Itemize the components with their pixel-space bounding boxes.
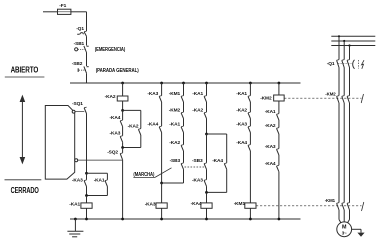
limit switch SQ1 — [84, 108, 86, 114]
wire P1 b — [338, 68, 340, 96]
coil KA4 — [201, 203, 212, 208]
wire P1 c — [338, 103, 340, 203]
contact KA1 C6 — [277, 114, 279, 120]
svg-text:-KA2: -KA2 — [128, 123, 139, 129]
junction bus2 x206.5 — [205, 218, 208, 221]
junction bus1 x122.6 — [121, 82, 124, 85]
svg-text:-KM1: -KM1 — [325, 198, 336, 203]
wire motor feed 1 — [338, 210, 340, 220]
mech link KM2 — [284, 97, 361, 99]
contactor KM2 poles — [337, 96, 339, 103]
svg-text:-KM2: -KM2 — [260, 96, 272, 102]
link SB3-SB3 — [185, 166, 206, 168]
junction bus2 x122.6 — [121, 218, 124, 221]
wire top feed — [43, 11, 58, 13]
wire P3 a — [349, 46, 351, 60]
contact KA3 main — [86, 173, 88, 180]
earth wire — [352, 228, 361, 230]
contact SB3 C3 — [181, 164, 183, 170]
contactor KM1 poles — [337, 203, 339, 210]
svg-text:-KA1: -KA1 — [265, 109, 276, 115]
node C4 branch top — [205, 133, 208, 136]
svg-text:-KM2: -KM2 — [325, 91, 336, 96]
contact KA4 C5 — [248, 145, 250, 151]
svg-text:3~: 3~ — [342, 231, 347, 236]
wire main mid — [86, 114, 88, 174]
underline ABIERTO — [5, 76, 45, 78]
wire P2 b — [343, 68, 345, 96]
svg-text:-KA3: -KA3 — [72, 178, 83, 184]
contact KA2 C5 — [248, 113, 250, 119]
wire C5 — [249, 102, 251, 112]
contact KA1 C4 — [204, 96, 206, 102]
svg-text:(PARADA GENERAL): (PARADA GENERAL) — [96, 68, 139, 74]
contact KA2 C6 — [277, 128, 279, 134]
pushbutton SB1 — [84, 46, 87, 53]
svg-text:ABIERTO: ABIERTO — [11, 66, 39, 75]
overline CERRADO — [5, 179, 42, 181]
svg-text:-Q1: -Q1 — [76, 26, 84, 32]
leader MARCHA — [133, 176, 155, 178]
svg-text:-SB2: -SB2 — [72, 61, 83, 67]
svg-text:-KA3: -KA3 — [110, 131, 121, 137]
contact KA2 C4 — [204, 113, 206, 119]
svg-text:-KA3: -KA3 — [236, 121, 247, 127]
svg-text:-KA2: -KA2 — [236, 107, 247, 113]
wire C6 — [278, 134, 280, 149]
branch KA4p wires — [207, 133, 227, 135]
link SQ2 — [78, 159, 122, 161]
wire C1 b — [122, 110, 124, 120]
node C1 branch bottom — [121, 146, 124, 149]
node C1 branch top — [121, 109, 124, 112]
svg-text:-KA3: -KA3 — [192, 178, 203, 184]
coil KM2 — [274, 95, 285, 101]
phase line L2 — [331, 40, 375, 42]
contact KA2 C3 — [181, 145, 183, 151]
wire C1 a — [122, 101, 124, 110]
wire C5 — [249, 83, 251, 96]
svg-text:-KA1: -KA1 — [236, 91, 247, 97]
wire to coil KA1 — [86, 196, 88, 203]
contact KM2 aux — [361, 94, 363, 103]
svg-text:-KA1: -KA1 — [192, 91, 203, 97]
wire coil KA4 to bus — [206, 208, 208, 219]
contact KA3 C2 — [159, 96, 161, 102]
wire C4 — [206, 102, 208, 112]
wire P2 a — [343, 41, 345, 60]
phase line L1 — [331, 35, 375, 37]
contact KA3 C6 — [277, 149, 279, 155]
wire C4 — [206, 83, 208, 96]
breaker Q1 poles — [337, 60, 339, 67]
svg-text:-KA2: -KA2 — [192, 107, 203, 113]
svg-text:-KA3: -KA3 — [265, 144, 276, 150]
wire C6 top — [278, 83, 280, 95]
svg-text:-KA4: -KA4 — [110, 115, 121, 121]
wire C2 to coil — [161, 183, 163, 203]
wire P3 c — [349, 103, 351, 203]
junction bus1 x206.5 — [205, 82, 208, 85]
breaker Q1 linkage — [338, 63, 352, 65]
junction bus2 x161.6 — [160, 218, 163, 221]
junction bus1 x250.4 — [249, 82, 252, 85]
wire coil KM1 to bus — [249, 208, 251, 219]
contact KA1 C3 — [181, 127, 183, 133]
breaker contact Q1 — [84, 32, 86, 36]
bus bottom — [70, 218, 301, 220]
wire C6 — [278, 120, 280, 128]
svg-text:-KA1: -KA1 — [69, 202, 80, 208]
svg-text:-KA3: -KA3 — [147, 91, 158, 97]
wire C5 — [249, 133, 251, 145]
wire C2 — [161, 102, 163, 126]
wire C6 — [278, 101, 280, 114]
contact KA1 C5 — [248, 96, 250, 102]
contact KA4 C2 — [159, 127, 161, 133]
junction L2 — [343, 40, 345, 42]
junction L1 — [338, 35, 340, 37]
svg-text:M: M — [342, 224, 347, 230]
svg-text:-KA4: -KA4 — [265, 161, 276, 167]
node ML-KA3 top — [85, 172, 88, 175]
wire C3 — [183, 119, 185, 127]
wire C3 — [183, 133, 185, 145]
svg-text:-KA4: -KA4 — [212, 158, 223, 164]
svg-text:-SB3: -SB3 — [170, 158, 181, 164]
junction bus2 x86.5 — [85, 218, 88, 221]
wire C1 top — [122, 83, 124, 96]
limit switch SQ2 contact — [120, 154, 122, 160]
contact KM1 C3 — [181, 96, 183, 102]
wire C1 c — [122, 148, 124, 153]
contact KA4 C6 — [277, 166, 279, 172]
junction bus1 x161.6 — [160, 82, 163, 85]
wire main drop — [86, 12, 88, 31]
coil KA1 — [81, 203, 92, 208]
svg-text:-KA2: -KA2 — [265, 123, 276, 129]
wire C5 — [249, 119, 251, 127]
wire C6 — [278, 155, 280, 165]
junction bus2 x278.9 — [278, 218, 281, 221]
ground symbol — [67, 230, 83, 232]
roller SQ2 — [75, 159, 78, 162]
svg-text:-Q1: -Q1 — [327, 61, 335, 67]
junction bus2 x75.4 — [74, 218, 77, 221]
contact KA3 C5 — [248, 127, 250, 133]
svg-text:-KA4: -KA4 — [191, 201, 202, 207]
branch KA1 wires — [87, 172, 108, 174]
wire C4 b — [206, 134, 208, 163]
ground stub — [74, 219, 76, 231]
svg-text:-KA4: -KA4 — [236, 140, 247, 146]
svg-text:-KA2: -KA2 — [105, 94, 116, 100]
contact KM1 aux — [362, 202, 364, 211]
wire C2 — [161, 133, 163, 184]
node C2 join — [160, 182, 163, 185]
breaker Q1 release — [353, 60, 355, 69]
contact KM2 C3 — [181, 113, 183, 119]
double arrow travel — [21, 99, 23, 160]
junction bus1 x278.9 — [278, 82, 281, 85]
svg-text:-KA1: -KA1 — [169, 121, 180, 127]
motor M1 — [337, 222, 352, 237]
node ML-KA3 bottom — [85, 194, 88, 197]
wire C4 — [206, 119, 208, 135]
earth arrow — [357, 233, 364, 237]
bus L+ top — [70, 82, 301, 84]
junction L3 — [348, 44, 350, 46]
coil KA3 — [156, 203, 167, 208]
coil KM1 — [245, 203, 256, 208]
contact KA3 C4 — [204, 180, 206, 186]
wire coil KA3 to bus — [161, 208, 163, 219]
junction bus1 x183.5 — [182, 82, 185, 85]
wire C3 — [183, 102, 185, 112]
svg-text:-KA1: -KA1 — [94, 178, 105, 184]
svg-text:-KM1: -KM1 — [234, 201, 246, 207]
branch KA2 hold wires — [123, 109, 141, 111]
svg-text:-KA4: -KA4 — [147, 121, 158, 127]
coil KA2 — [117, 96, 128, 101]
wire C2 — [161, 83, 163, 96]
wire coil KA1 to bus — [86, 208, 88, 219]
contact KA3 C1 — [120, 136, 122, 142]
svg-text:-SB3: -SB3 — [192, 158, 203, 164]
fuse F1 — [58, 9, 71, 14]
wire C3 join — [162, 182, 184, 184]
wire P2 c — [343, 103, 345, 203]
contact KA4 C1 — [120, 121, 122, 127]
node C4 branch bottom — [205, 191, 208, 194]
wire C6 bottom — [278, 172, 280, 219]
svg-text:-KM2: -KM2 — [169, 107, 181, 113]
wire C3 — [183, 151, 185, 163]
wire C3 — [183, 169, 185, 183]
wire P1 a — [338, 36, 340, 59]
wire motor feed 2 — [343, 210, 345, 222]
wire C3 — [183, 83, 185, 96]
contact KA4 branch — [224, 164, 226, 170]
contact KA2 hold — [138, 129, 140, 135]
mech link KM1 — [256, 205, 362, 207]
svg-text:-KA2: -KA2 — [169, 140, 180, 146]
svg-text:CERRADO: CERRADO — [11, 186, 39, 195]
contact KA1 branch — [105, 181, 107, 187]
junction bus2 x250.4 — [249, 218, 252, 221]
svg-text:-SB1: -SB1 — [74, 41, 85, 47]
svg-text:-KA3: -KA3 — [145, 201, 156, 207]
svg-text:-KM1: -KM1 — [169, 91, 181, 97]
wire P3 b — [349, 68, 351, 96]
wire motor feed 3 — [349, 210, 351, 220]
contact SB3 C4 — [204, 164, 206, 170]
svg-text:-SQ2: -SQ2 — [107, 149, 118, 155]
pushbutton SB2 — [84, 66, 87, 73]
svg-text:(EMERGENCIA): (EMERGENCIA) — [95, 47, 126, 53]
phase line L3 — [331, 45, 375, 47]
cam door profile — [45, 106, 74, 180]
svg-text:-F1: -F1 — [59, 3, 66, 9]
svg-text:-SQ1: -SQ1 — [72, 101, 83, 107]
wire C5 — [249, 151, 251, 203]
wire C4 to coil — [206, 192, 208, 203]
